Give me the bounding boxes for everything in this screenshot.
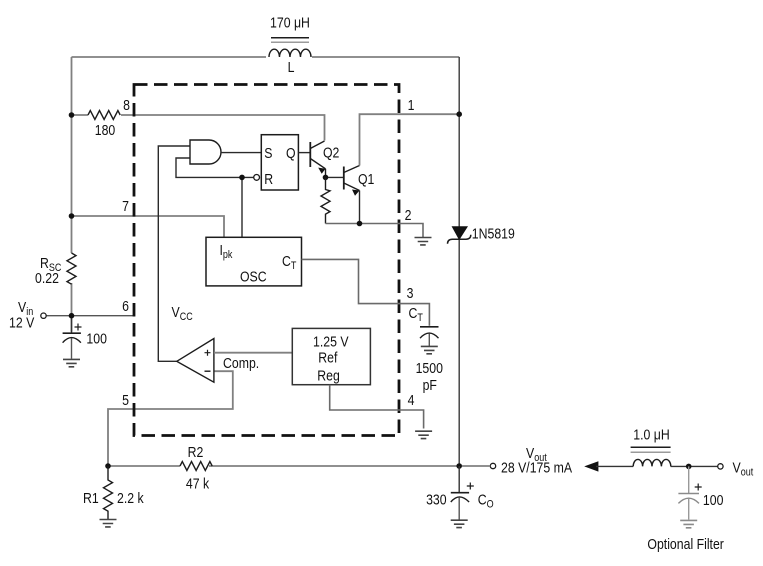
inductor L 170uH coil [269,38,311,57]
svg-text:1500: 1500 [416,360,444,376]
svg-text:12 V: 12 V [9,314,35,330]
svg-text:6: 6 [122,298,129,314]
wire Q1 emitter down to pin2 line [359,191,361,224]
wire comparator plus input to ref box [214,352,293,354]
svg-text:0.22: 0.22 [35,270,59,286]
junction dot Q1 emitter node [357,221,363,227]
svg-text:170 μH: 170 μH [270,14,310,30]
svg-text:7: 7 [122,198,129,214]
inductor 1.0uH filter coil [631,447,671,466]
latch box S/R [261,135,298,190]
svg-text:1: 1 [408,97,415,113]
svg-text:330: 330 [426,491,447,507]
svg-text:3: 3 [407,285,414,301]
resistor R1 2.2k [104,466,113,519]
svg-text:8: 8 [123,97,130,113]
wire Vout node to terminal [462,465,490,467]
wire ref box to pin4 ground [330,385,424,429]
junction dot pin1 right rail [456,111,462,117]
ground under input cap [63,359,80,366]
svg-text:Ref: Ref [318,349,337,365]
svg-text:Comp.: Comp. [223,355,259,371]
svg-text:1.0 μH: 1.0 μH [633,426,669,442]
OSC box [206,237,302,286]
svg-text:4: 4 [408,392,415,408]
wire R node down to OSC [241,177,243,237]
wire pin2 line to ground [326,224,424,238]
svg-text:L: L [288,59,295,75]
junction dot filter node [686,464,692,470]
transistor Q2 [310,141,325,177]
wire top rail from Vin rail to right rail [72,56,460,58]
terminal Vin [41,313,46,318]
svg-text:2.2 k: 2.2 k [117,490,144,506]
svg-text:Q2: Q2 [323,144,339,160]
svg-text:R1: R1 [83,490,99,506]
wire bottom feedback rail [108,465,459,467]
svg-text:Optional Filter: Optional Filter [647,536,724,552]
wire pin8 line with resistor leads [72,115,325,141]
junction dot Q2 emitter node [323,175,329,181]
arrow from filter to Vout [584,461,633,471]
wire Q1 collector to pin1 [360,114,460,165]
svg-text:OSC: OSC [240,268,267,284]
svg-text:R2: R2 [188,444,204,460]
svg-text:100: 100 [86,330,107,346]
wire pin5 line to comparator inverting input [108,371,233,466]
wire CT output to pin3 and CT cap [302,259,430,325]
dashed IC boundary box [134,85,399,436]
junction dot R1 R2 node [105,463,111,469]
svg-text:5: 5 [122,392,129,408]
resistor Q2 emitter [321,177,330,223]
svg-text:Reg: Reg [317,367,340,383]
capacitor CO 330 [451,466,474,520]
ground under CT cap [421,346,438,353]
op-amp comparator [177,339,214,383]
wire pin7 line [72,216,225,237]
svg-text:R: R [264,171,273,187]
svg-text:100: 100 [703,492,724,508]
wire Q output to Q2 base [298,152,310,154]
AND gate U1 [190,140,221,164]
svg-text:2: 2 [405,207,412,223]
terminal Vout filter [718,464,723,469]
capacitor CT 1500pF [420,327,439,346]
ground under CO [451,520,468,527]
ground pin4 [415,431,432,438]
ground under filter cap [680,520,697,527]
svg-text:47 k: 47 k [186,475,209,491]
wire right rail with diode [458,57,460,466]
wire pin6 line from Vin terminal [46,315,134,317]
inverter bubble on R input [254,175,260,181]
wire AND output to S input [221,152,261,154]
svg-text:180: 180 [95,122,116,138]
diode 1N5819 [448,227,471,244]
junction dot left rail pin7 [69,213,75,219]
wire Q2 emitter node to Q1 base [326,176,344,178]
ground under R1 [100,520,117,527]
ground pin2 [415,238,432,245]
junction dot R node [239,175,245,181]
wire left rail [71,57,73,332]
capacitor 100 input [63,316,82,359]
svg-text:S: S [264,145,272,161]
capacitor 100 filter [678,466,701,519]
transistor Q1 [344,166,360,196]
resistor RSC 0.22 [67,253,76,284]
svg-text:1.25 V: 1.25 V [313,333,349,349]
wire comparator output to AND gate input [158,146,190,361]
wire filter node to terminal [671,465,718,467]
svg-text:pF: pF [423,377,437,393]
wire AND gate lower input feedback [176,158,254,177]
reference regulator box 1.25V [292,328,370,384]
junction dot left rail pin8 [69,112,75,118]
svg-text:1N5819: 1N5819 [472,225,515,241]
terminal Vout main [490,463,495,468]
resistor 180 [88,111,120,120]
svg-text:Q: Q [286,145,296,161]
svg-text:28 V/175 mA: 28 V/175 mA [501,459,573,475]
svg-text:Q1: Q1 [358,171,374,187]
junction dot Vin node [69,313,75,319]
resistor R2 47k [180,462,212,471]
junction dot Vout node [456,463,462,469]
